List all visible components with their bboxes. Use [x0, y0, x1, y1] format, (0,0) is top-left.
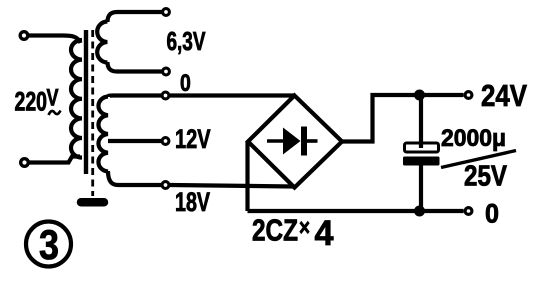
terminal: primary top-left	[20, 32, 28, 40]
wire: bridge right vertex stair-step to top rail	[342, 95, 464, 142]
svg-text:4: 4	[315, 214, 335, 253]
svg-text:×: ×	[299, 215, 310, 242]
svg-text:3: 3	[39, 221, 59, 268]
wire: 6.3V top lead	[108, 12, 163, 22]
transformer core dashed line	[91, 30, 94, 196]
diode inside bridge (anode lead, triangle, cathode bar, cathode lead)	[267, 127, 318, 156]
label 220V~	[15, 85, 61, 117]
svg-text:25V: 25V	[464, 161, 507, 193]
svg-text:12V: 12V	[175, 124, 211, 154]
svg-text:6,3V: 6,3V	[167, 26, 206, 56]
capacitor C1 top plate (hollow)	[405, 143, 439, 152]
wire: primary bottom lead	[29, 157, 80, 163]
transformer core solid line	[84, 30, 88, 174]
terminal: 0 output	[465, 208, 472, 215]
transformer T1 primary winding	[71, 40, 82, 158]
wire: 6.3V bottom lead	[108, 62, 163, 72]
wire: 0 tap lead	[108, 96, 161, 98]
junction: top rail / capacitor	[414, 90, 425, 101]
wire: 12V stub	[108, 139, 161, 143]
wire: capacitor bottom lead	[419, 165, 423, 211]
transformer secondary winding 6.3V	[97, 22, 107, 63]
svg-text:24V: 24V	[481, 79, 528, 113]
figure number 3 (circled)	[26, 221, 71, 268]
terminal: primary bottom-left	[21, 159, 29, 167]
transformer secondary winding 0-12-18V	[98, 97, 108, 172]
terminal: 6.3V bottom	[163, 68, 170, 75]
label 2000μ / 25V with fraction line	[441, 125, 516, 193]
svg-text:0: 0	[485, 199, 499, 229]
svg-text:2CZ: 2CZ	[252, 213, 298, 248]
wire: primary top lead	[29, 36, 81, 44]
svg-text:V: V	[47, 85, 59, 112]
wire: bottom rail (negative)	[248, 209, 464, 213]
ground (core shield bar)	[81, 198, 104, 207]
label 2CZ×4	[252, 213, 334, 254]
svg-text:0: 0	[180, 70, 191, 97]
svg-text:220: 220	[15, 87, 48, 117]
terminal: 12V	[162, 138, 169, 145]
svg-text:2000μ: 2000μ	[441, 125, 506, 152]
terminal: 0 tap	[162, 92, 169, 99]
junction: bottom rail / capacitor	[414, 206, 425, 217]
svg-text:18V: 18V	[175, 187, 210, 217]
wire: capacitor top lead	[419, 95, 423, 148]
wire: bridge left vertex down to bottom rail	[245, 142, 249, 212]
bridge rectifier outline	[248, 96, 342, 188]
terminal: 6.3V top	[163, 9, 170, 16]
wire: 18V lead	[108, 171, 161, 185]
capacitor C1 bottom plate (solid)	[403, 157, 440, 166]
wire: 0 tap to bridge top vertex	[170, 93, 295, 97]
wire: 18V to bridge bottom vertex	[170, 185, 293, 187]
terminal: 24V output	[465, 92, 472, 99]
terminal: 18V	[162, 182, 169, 189]
